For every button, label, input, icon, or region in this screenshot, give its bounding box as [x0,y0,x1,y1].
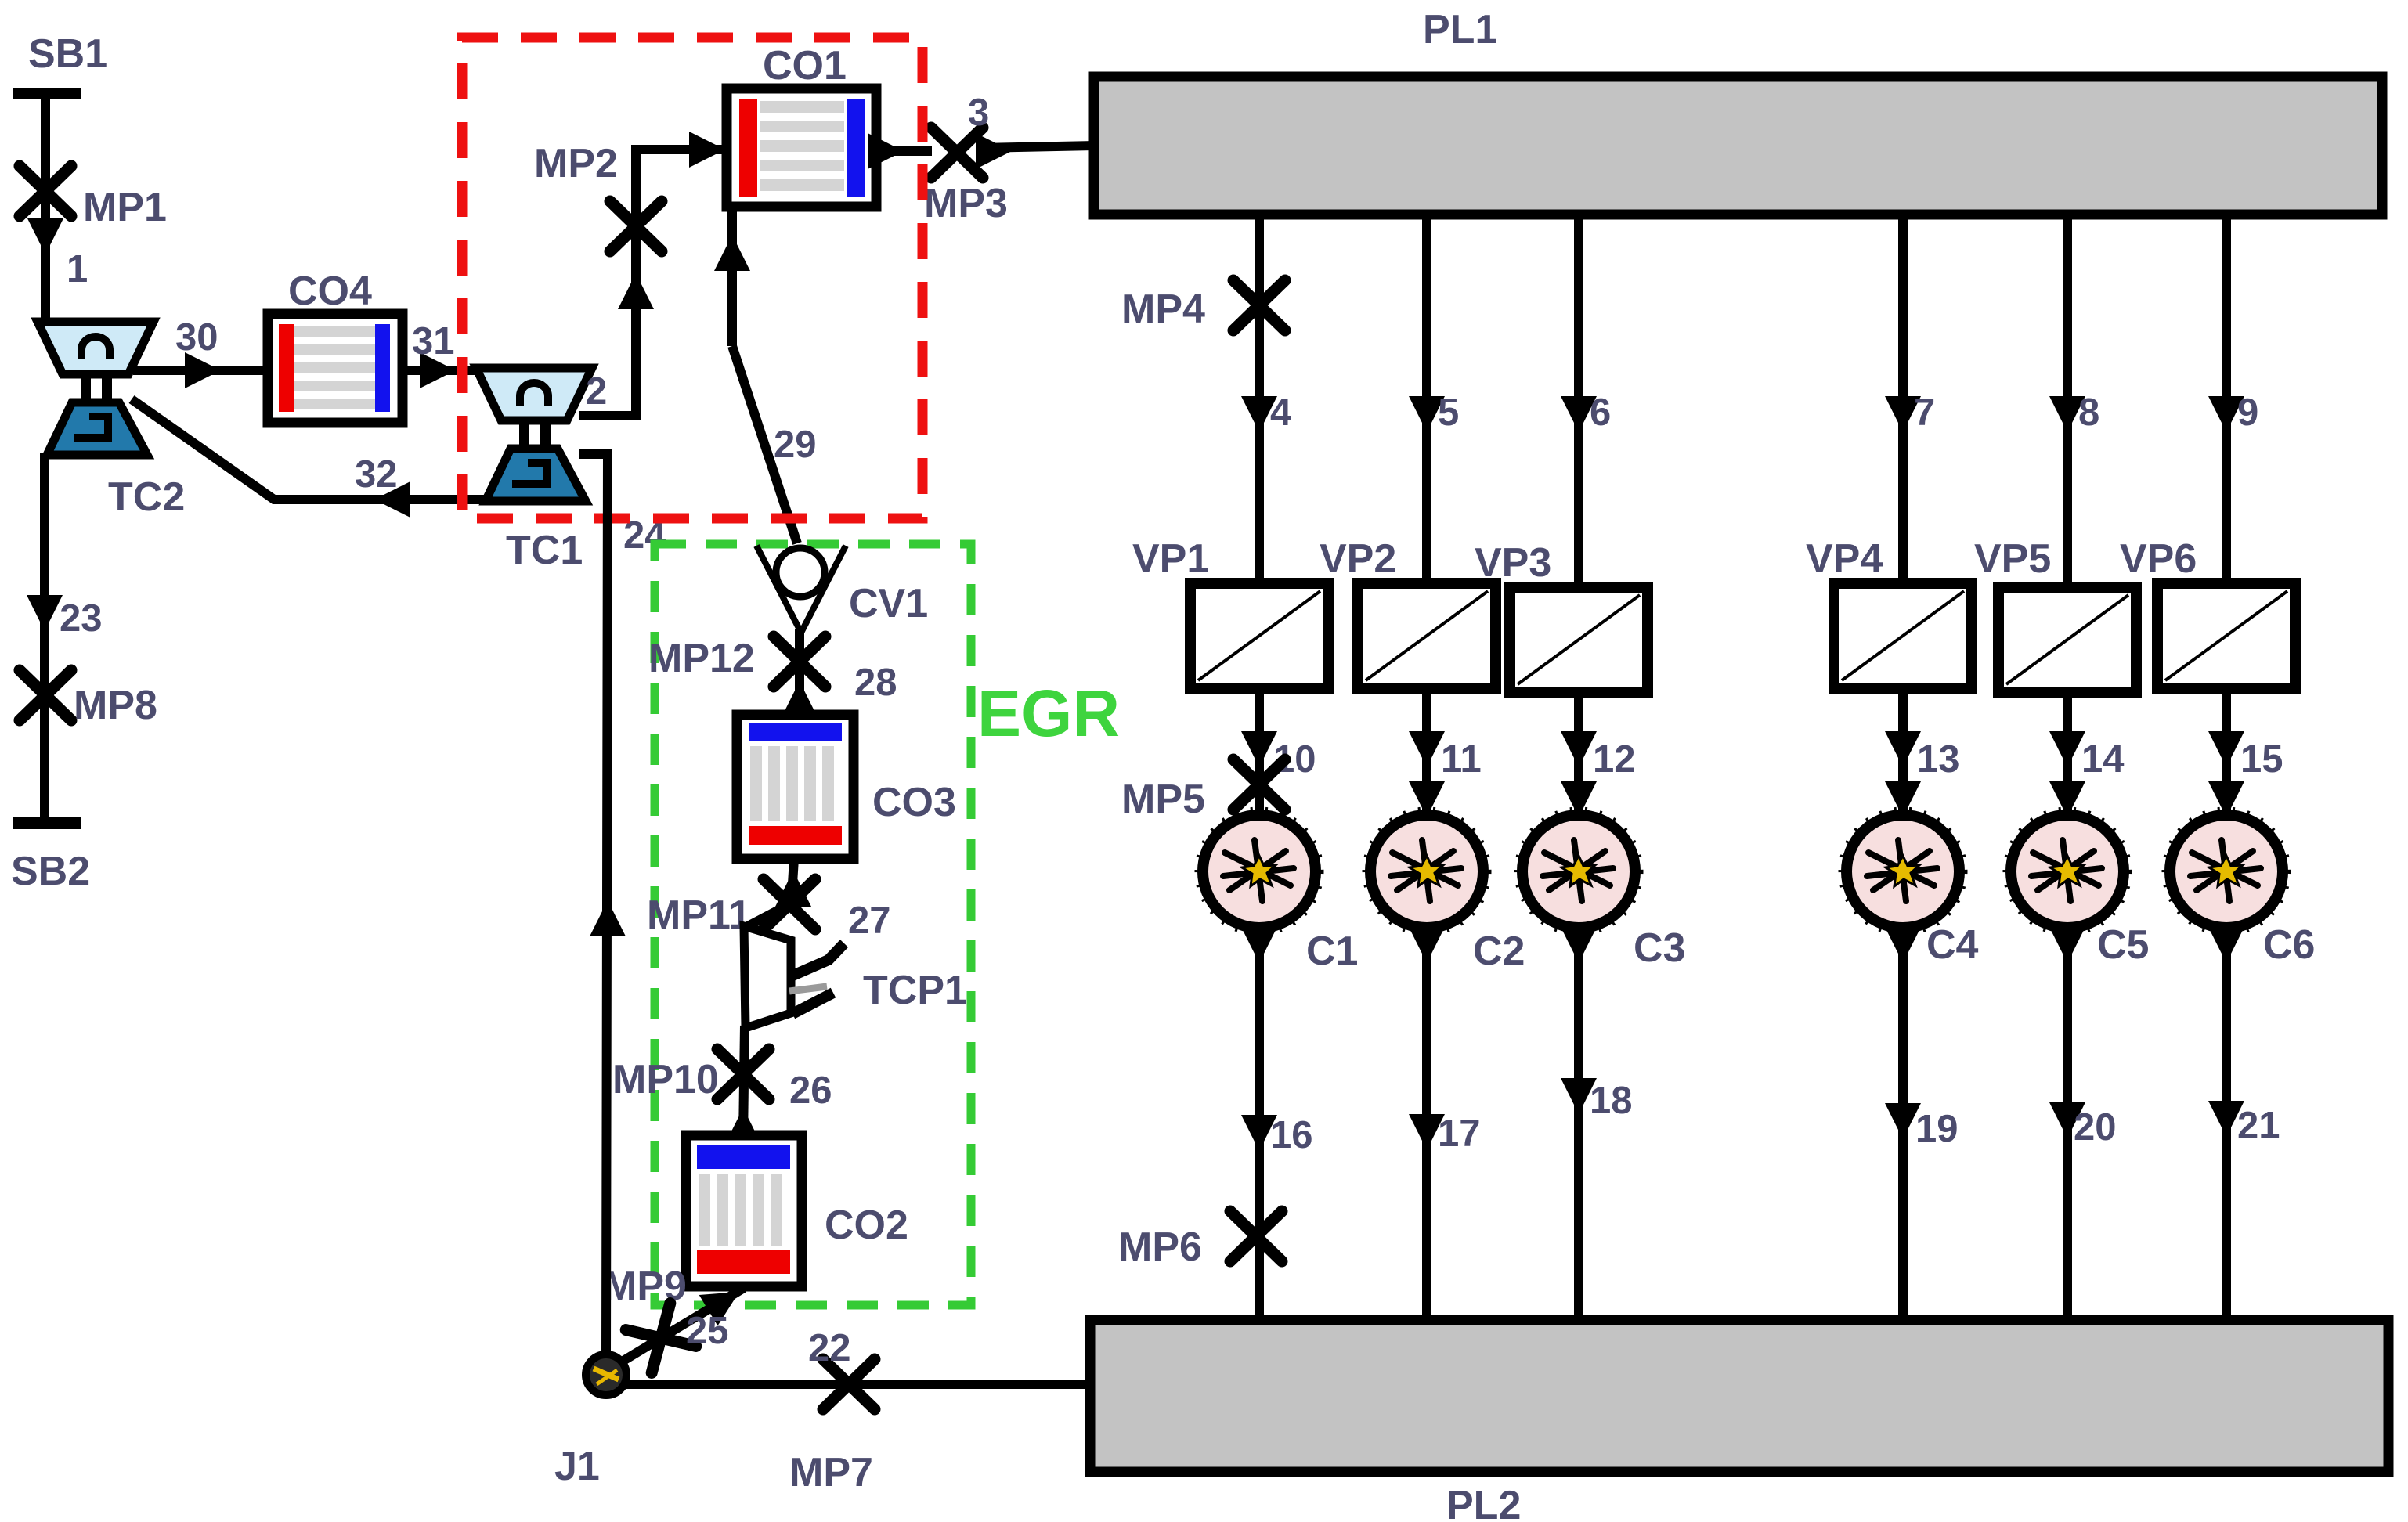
svg-text:J1: J1 [554,1444,600,1489]
svg-text:C3: C3 [1634,925,1685,971]
boundary SB2 [13,817,81,829]
wire PL1 to VP6 [2222,215,2231,586]
flow arrow into C3 [1561,781,1597,817]
wire CO3 to MP11 [791,859,794,908]
svg-text:MP4: MP4 [1121,287,1205,332]
svg-text:30: 30 [175,316,218,359]
flow arrow link 7 [1885,396,1921,432]
junction J1 [586,1354,626,1395]
flow arrow link 30 [185,352,221,388]
wire VP6 to C6 [2222,688,2231,819]
flow arrow link 20 [2049,1102,2085,1138]
svg-text:TC1: TC1 [506,528,583,573]
flow arrow into C4 [1885,781,1921,817]
flow arrow link 9 [2208,396,2244,432]
flow arrow link 18 [1561,1078,1597,1114]
flow arrow link 11 [1409,731,1445,767]
wire C3 to PL2 [1574,928,1583,1323]
svg-text:CO2: CO2 [825,1203,908,1248]
cylinder C3 [1517,810,1641,933]
cylinder C4 [1841,810,1965,933]
valve VP4 [1834,583,1972,688]
flow arrow out of C1 [1241,927,1277,963]
svg-text:22: 22 [808,1327,851,1369]
svg-text:6: 6 [1590,391,1611,434]
svg-text:PL2: PL2 [1446,1483,1521,1522]
flow arrow into C2 [1409,781,1445,817]
wire MP3 to PL1 [982,146,1096,148]
cylinder C5 [2005,810,2129,933]
svg-text:VP3: VP3 [1475,540,1551,586]
flow arrow up into CO2 bottom [699,1276,749,1325]
flow arrow link 12 [1561,731,1597,767]
flow arrow link 3 [976,133,1012,169]
wire VP3 to C3 [1574,692,1583,819]
flow arrow link 17 [1409,1114,1445,1150]
wire J1 to CO2 diagonal [616,1288,744,1365]
wire J1 riser to TC1 turbine [579,454,608,1356]
turbocharger TC2 [38,322,153,455]
svg-text:9: 9 [2237,391,2258,434]
flow arrow link 6 [1561,396,1597,432]
svg-text:27: 27 [848,900,891,942]
wire CO1 drain down [727,207,737,346]
svg-text:2: 2 [586,370,607,413]
wire C1 to PL2 [1255,928,1264,1323]
plenum PL1 [1094,77,2382,215]
turbocharger TC1 [476,368,592,501]
svg-text:SB2: SB2 [11,849,90,894]
wire C5 to PL2 [2063,928,2072,1323]
flow arrow up into CO3 [782,681,818,717]
svg-text:PL1: PL1 [1423,7,1497,52]
cooler CO3 [737,715,854,859]
EGR boundary box (green dashed) [655,544,971,1305]
cooler CO2 [686,1135,802,1286]
cylinder C6 [2164,810,2288,933]
wire J1 to PL2 [623,1380,1093,1389]
flow arrow link 16 [1241,1115,1277,1151]
svg-text:13: 13 [1917,738,1960,781]
wire riser to CO1 inlet [631,145,728,154]
svg-text:8: 8 [2078,391,2099,434]
flow arrow link 31 [420,352,456,388]
throttle TCP1 [744,904,844,1028]
valve VP1 [1190,583,1328,688]
svg-text:MP12: MP12 [648,636,755,681]
plenum PL2 [1090,1320,2388,1472]
wire PL1 to VP3 [1574,215,1583,586]
svg-text:20: 20 [2074,1106,2117,1149]
svg-text:CO3: CO3 [872,780,956,825]
svg-text:VP2: VP2 [1320,536,1396,582]
flow arrow out of C6 [2208,927,2244,963]
svg-text:MP10: MP10 [612,1057,719,1102]
svg-text:21: 21 [2237,1105,2280,1147]
wire C6 to PL2 [2222,928,2231,1323]
flow arrow link 14 [2049,731,2085,767]
valve MP3 [931,128,983,178]
flow arrow up into CO2 [725,1108,761,1144]
valve 25 [626,1304,696,1373]
wire SB1 to TC2 compressor inlet [41,93,50,325]
flow arrow out of C4 [1885,927,1921,963]
flow arrow up into CO3 bottom [775,871,811,907]
svg-text:15: 15 [2240,738,2283,781]
wire CO4 to TC1 compressor [403,366,481,375]
wire TC2 turbine down to SB2 [40,453,49,821]
wire TC1 compressor to MP2 riser [579,153,636,416]
valve VP2 [1358,583,1496,688]
wire CV1 to CO3 [795,629,804,716]
svg-text:19: 19 [1915,1108,1959,1150]
svg-text:18: 18 [1590,1080,1633,1122]
svg-text:VP5: VP5 [1974,536,2051,582]
svg-text:17: 17 [1438,1113,1481,1155]
valve VP6 [2157,583,2295,688]
wire VP4 to C4 [1898,688,1908,819]
valve MP5 [1233,759,1285,810]
wire C4 to PL2 [1898,928,1908,1323]
svg-text:MP11: MP11 [647,893,751,938]
valve MP1 [20,166,71,216]
flow arrow out of C3 [1561,927,1597,963]
svg-text:MP2: MP2 [534,141,618,186]
flow arrow into C6 [2208,781,2244,817]
flow arrow into CO1 [689,132,725,168]
valve MP11 [764,879,815,929]
wire VP5 to C5 [2063,692,2072,819]
svg-text:26: 26 [789,1069,832,1112]
svg-text:MP7: MP7 [789,1450,873,1495]
svg-text:25: 25 [686,1310,729,1352]
svg-text:4: 4 [1270,391,1291,434]
flow arrow up link 24 [590,900,626,936]
valve VP3 [1510,587,1648,692]
svg-text:VP4: VP4 [1806,536,1883,582]
wire VP2 to C2 [1422,688,1431,819]
flow arrow link 32 [374,481,410,518]
svg-text:EGR: EGR [977,676,1120,750]
svg-text:14: 14 [2081,738,2125,781]
wire TC2 compressor to CO4 [133,366,269,375]
flow arrow link 21 [2208,1101,2244,1137]
valve MP12 [774,637,825,687]
flow arrow up to CO1 [618,273,654,309]
svg-text:CO4: CO4 [288,269,372,314]
svg-text:MP6: MP6 [1118,1224,1202,1270]
flow arrow link 15 [2208,731,2244,767]
svg-text:MP8: MP8 [74,683,157,728]
svg-text:5: 5 [1438,391,1459,434]
flow arrow link 10 [1241,731,1277,767]
wire PL1 to VP1 [1255,215,1264,586]
flow arrow out of CO1 [868,133,904,169]
svg-text:MP3: MP3 [924,181,1008,226]
cylinder C2 [1365,810,1489,933]
flow arrow link 23 [27,595,63,631]
wire link 29 diagonal from EGR [732,346,797,543]
svg-text:7: 7 [1914,391,1935,434]
wire PL1 to VP5 [2063,215,2072,586]
svg-text:32: 32 [355,453,398,496]
svg-text:C4: C4 [1926,922,1979,968]
svg-text:TC2: TC2 [108,474,185,520]
wire TCP1 to MP10 [743,1026,745,1139]
svg-text:CO1: CO1 [763,43,847,88]
valve MP7 [823,1359,875,1409]
valve MP6 [1230,1211,1282,1261]
wire CO1 to MP3 [876,146,932,156]
wire C2 to PL2 [1422,928,1431,1323]
svg-text:C1: C1 [1306,929,1358,974]
flow arrow out of C5 [2049,927,2085,963]
svg-text:1: 1 [67,248,88,290]
turbocharger boundary box (red dashed) [462,38,922,518]
cooler CO1 [727,88,876,207]
svg-text:MP5: MP5 [1121,777,1205,822]
svg-text:12: 12 [1593,738,1636,781]
svg-text:C5: C5 [2097,922,2149,968]
flow arrow link 4 [1241,396,1277,432]
svg-text:29: 29 [774,424,817,466]
flow arrow link 13 [1885,731,1921,767]
svg-text:3: 3 [968,92,989,134]
flow arrow out of C2 [1409,927,1445,963]
flow arrow into C5 [2049,781,2085,817]
boundary SB1 [13,88,81,99]
wire PL1 to VP2 [1422,215,1431,586]
svg-text:VP1: VP1 [1132,536,1209,582]
flow arrow into node 1 [27,218,63,254]
flow arrow up into CO1 bottom [714,235,750,271]
wire VP1 to C1 [1255,688,1264,819]
svg-text:SB1: SB1 [28,31,107,77]
svg-text:VP6: VP6 [2120,536,2197,582]
check valve CV1 [756,546,846,633]
valve MP8 [20,670,71,720]
svg-text:TCP1: TCP1 [863,968,967,1013]
svg-text:28: 28 [854,662,897,704]
svg-text:16: 16 [1270,1114,1313,1156]
flow arrow link 19 [1885,1103,1921,1139]
svg-text:11: 11 [1441,738,1482,781]
valve MP2 [610,201,662,251]
valve VP5 [1998,587,2136,692]
svg-text:CV1: CV1 [849,581,928,626]
flow arrow link 8 [2049,396,2085,432]
cooler CO4 [268,314,403,423]
cylinder C1 [1197,810,1321,933]
svg-text:23: 23 [60,597,103,640]
wire TC1 turbine to link 32 [132,399,493,500]
wire PL1 to VP4 [1898,215,1908,586]
svg-text:C6: C6 [2263,922,2315,968]
svg-text:31: 31 [412,320,455,362]
flow arrow link 5 [1409,396,1445,432]
svg-text:C2: C2 [1473,929,1525,974]
valve MP10 [717,1049,769,1099]
valve MP4 [1233,280,1285,330]
svg-text:MP1: MP1 [83,185,167,230]
